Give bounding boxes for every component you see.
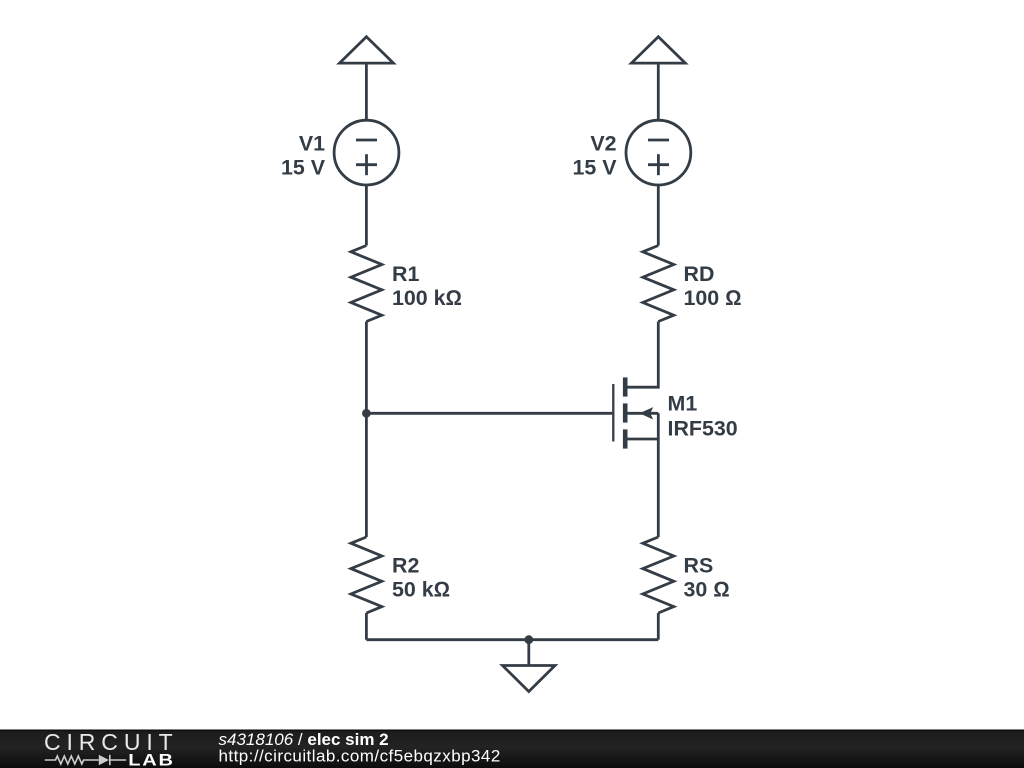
wire bottom	[366, 638, 658, 641]
svg-text:M1: M1	[668, 392, 698, 416]
svg-text:R2: R2	[392, 554, 419, 578]
wire source	[657, 413, 660, 537]
svg-text:R1: R1	[392, 262, 419, 286]
svg-text:IRF530: IRF530	[668, 416, 738, 440]
svg-text:RS: RS	[684, 554, 714, 578]
resistor R2	[351, 537, 382, 613]
svg-text:50 kΩ: 50 kΩ	[392, 578, 450, 602]
transistor M1	[613, 377, 658, 448]
wire	[657, 613, 660, 640]
logo mini schematic resistor and diode	[45, 755, 126, 765]
power supply arrow V1	[340, 37, 394, 63]
svg-text:100 Ω: 100 Ω	[684, 286, 742, 310]
power supply arrow V2	[631, 37, 685, 63]
wire drain	[628, 322, 659, 388]
resistor RS	[643, 537, 674, 613]
node gate junction	[362, 409, 371, 418]
svg-text:15 V: 15 V	[281, 155, 326, 179]
svg-text:V1: V1	[299, 131, 325, 155]
svg-text:RD: RD	[684, 262, 715, 286]
wire	[365, 185, 368, 246]
wire	[365, 322, 368, 538]
wire	[365, 63, 368, 120]
resistor RD	[643, 246, 674, 322]
resistor R1	[351, 246, 382, 322]
svg-text:100 kΩ: 100 kΩ	[392, 286, 462, 310]
wire gate	[366, 412, 613, 415]
svg-text:LAB: LAB	[128, 750, 175, 768]
ground	[503, 640, 556, 692]
wire	[657, 63, 660, 120]
footer title text	[219, 730, 501, 766]
svg-text:30 Ω: 30 Ω	[684, 578, 730, 602]
voltage source V1	[334, 120, 399, 185]
footer bar	[0, 730, 1024, 768]
svg-text:15 V: 15 V	[572, 155, 617, 179]
svg-text:V2: V2	[590, 131, 616, 155]
wire	[365, 613, 368, 640]
svg-text:http://circuitlab.com/cf5ebqzx: http://circuitlab.com/cf5ebqzxbp342	[219, 747, 501, 766]
wire	[657, 185, 660, 246]
node ground junction	[524, 635, 533, 644]
voltage source V2	[626, 120, 691, 185]
